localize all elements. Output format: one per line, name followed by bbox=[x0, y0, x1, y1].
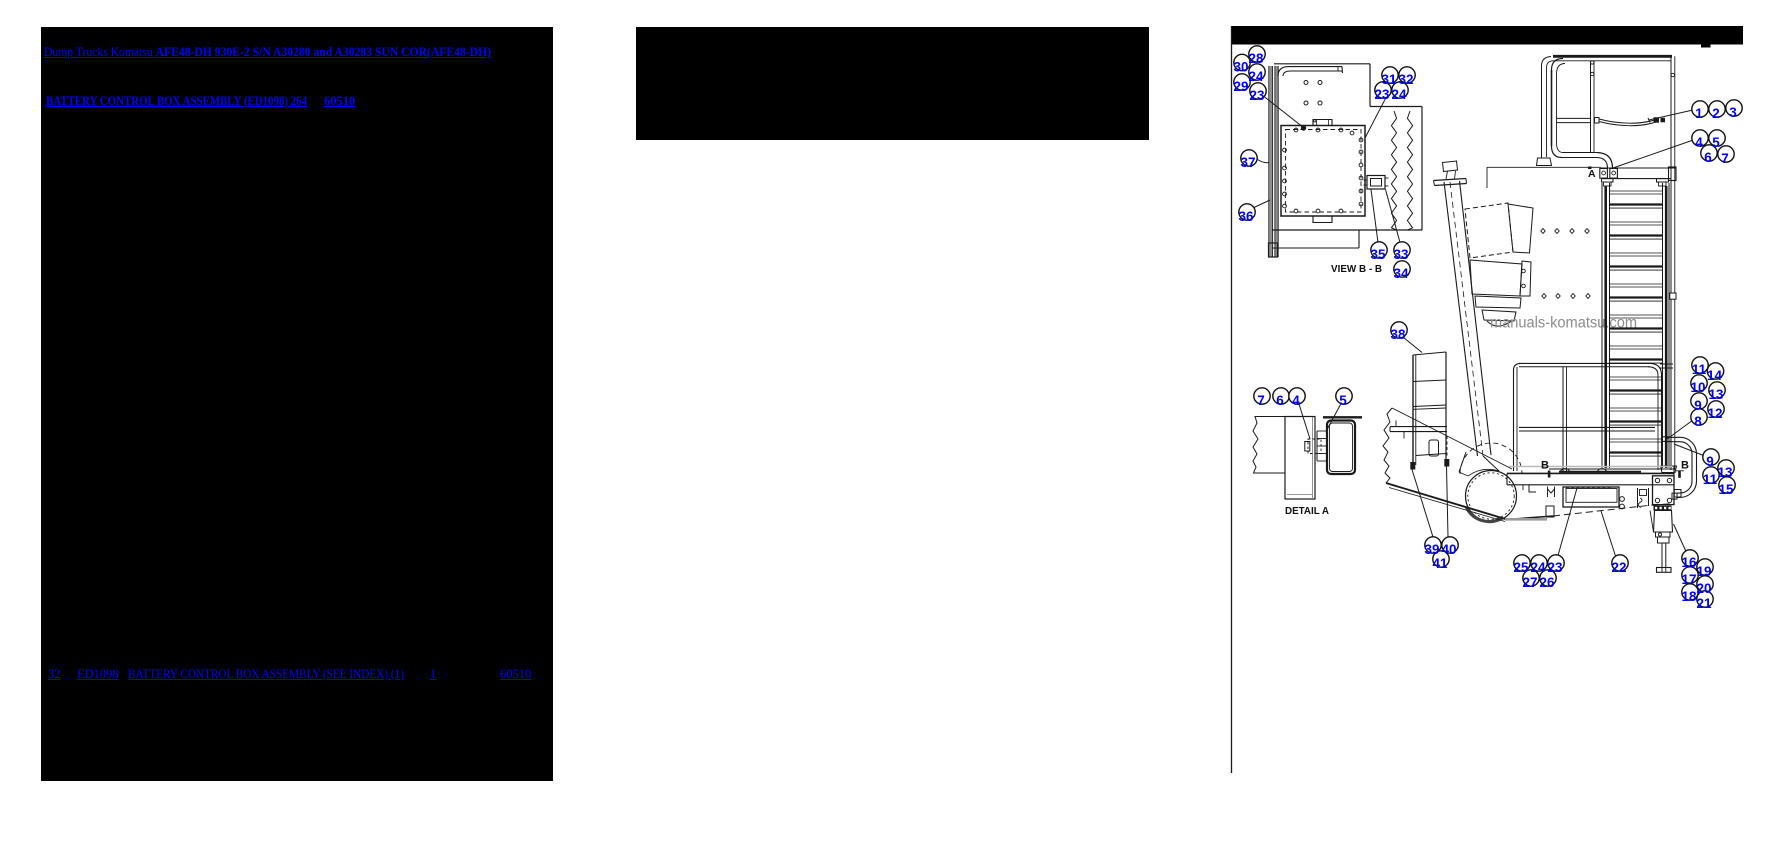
svg-text:DETAIL A: DETAIL A bbox=[1285, 506, 1330, 517]
svg-text:7: 7 bbox=[1257, 393, 1265, 408]
svg-text:11: 11 bbox=[1692, 362, 1707, 377]
svg-text:28: 28 bbox=[1248, 51, 1264, 66]
svg-text:16: 16 bbox=[1681, 555, 1697, 570]
svg-text:A: A bbox=[1588, 168, 1596, 180]
svg-text:7: 7 bbox=[1721, 151, 1729, 166]
svg-text:23: 23 bbox=[1547, 560, 1563, 575]
svg-text:B: B bbox=[1541, 460, 1549, 472]
svg-text:35: 35 bbox=[1370, 247, 1386, 262]
svg-text:36: 36 bbox=[1238, 209, 1254, 224]
svg-text:2: 2 bbox=[1712, 106, 1720, 121]
svg-text:27: 27 bbox=[1522, 575, 1537, 590]
svg-text:30: 30 bbox=[1233, 60, 1248, 75]
svg-text:34: 34 bbox=[1393, 266, 1409, 281]
svg-text:3: 3 bbox=[1729, 105, 1737, 120]
svg-text:23: 23 bbox=[1374, 87, 1390, 102]
svg-text:23: 23 bbox=[1249, 88, 1265, 103]
svg-text:21: 21 bbox=[1696, 596, 1712, 611]
svg-text:26: 26 bbox=[1539, 575, 1555, 590]
svg-text:18: 18 bbox=[1681, 589, 1697, 604]
svg-text:1: 1 bbox=[1695, 106, 1703, 121]
svg-text:17: 17 bbox=[1681, 572, 1696, 587]
svg-text:6: 6 bbox=[1276, 393, 1284, 408]
svg-text:9: 9 bbox=[1706, 454, 1714, 469]
svg-text:22: 22 bbox=[1611, 560, 1626, 575]
svg-text:4: 4 bbox=[1292, 393, 1300, 408]
svg-text:15: 15 bbox=[1718, 482, 1734, 497]
svg-text:38: 38 bbox=[1390, 327, 1406, 342]
svg-text:31: 31 bbox=[1381, 72, 1397, 87]
svg-text:24: 24 bbox=[1530, 560, 1546, 575]
svg-text:10: 10 bbox=[1690, 380, 1705, 395]
svg-text:13: 13 bbox=[1717, 465, 1733, 480]
svg-text:33: 33 bbox=[1393, 247, 1409, 262]
svg-text:29: 29 bbox=[1233, 79, 1248, 94]
svg-text:5: 5 bbox=[1339, 393, 1347, 408]
svg-text:32: 32 bbox=[1398, 72, 1413, 87]
svg-text:39: 39 bbox=[1424, 542, 1439, 557]
svg-text:41: 41 bbox=[1432, 556, 1448, 571]
svg-text:24: 24 bbox=[1391, 87, 1407, 102]
svg-text:19: 19 bbox=[1696, 564, 1711, 579]
svg-text:12: 12 bbox=[1707, 406, 1722, 421]
svg-text:VIEW B - B: VIEW B - B bbox=[1331, 264, 1382, 275]
svg-text:6: 6 bbox=[1704, 150, 1712, 165]
svg-text:40: 40 bbox=[1441, 542, 1456, 557]
svg-text:25: 25 bbox=[1513, 560, 1529, 575]
svg-text:13: 13 bbox=[1708, 387, 1724, 402]
svg-text:24: 24 bbox=[1248, 69, 1264, 84]
svg-text:B: B bbox=[1681, 460, 1689, 472]
svg-text:20: 20 bbox=[1696, 581, 1711, 596]
svg-text:9: 9 bbox=[1694, 398, 1702, 413]
svg-text:4: 4 bbox=[1695, 135, 1703, 150]
svg-text:5: 5 bbox=[1712, 135, 1720, 150]
svg-text:11: 11 bbox=[1703, 472, 1718, 487]
svg-text:8: 8 bbox=[1694, 414, 1702, 429]
svg-text:14: 14 bbox=[1707, 368, 1723, 383]
svg-text:37: 37 bbox=[1240, 155, 1255, 170]
